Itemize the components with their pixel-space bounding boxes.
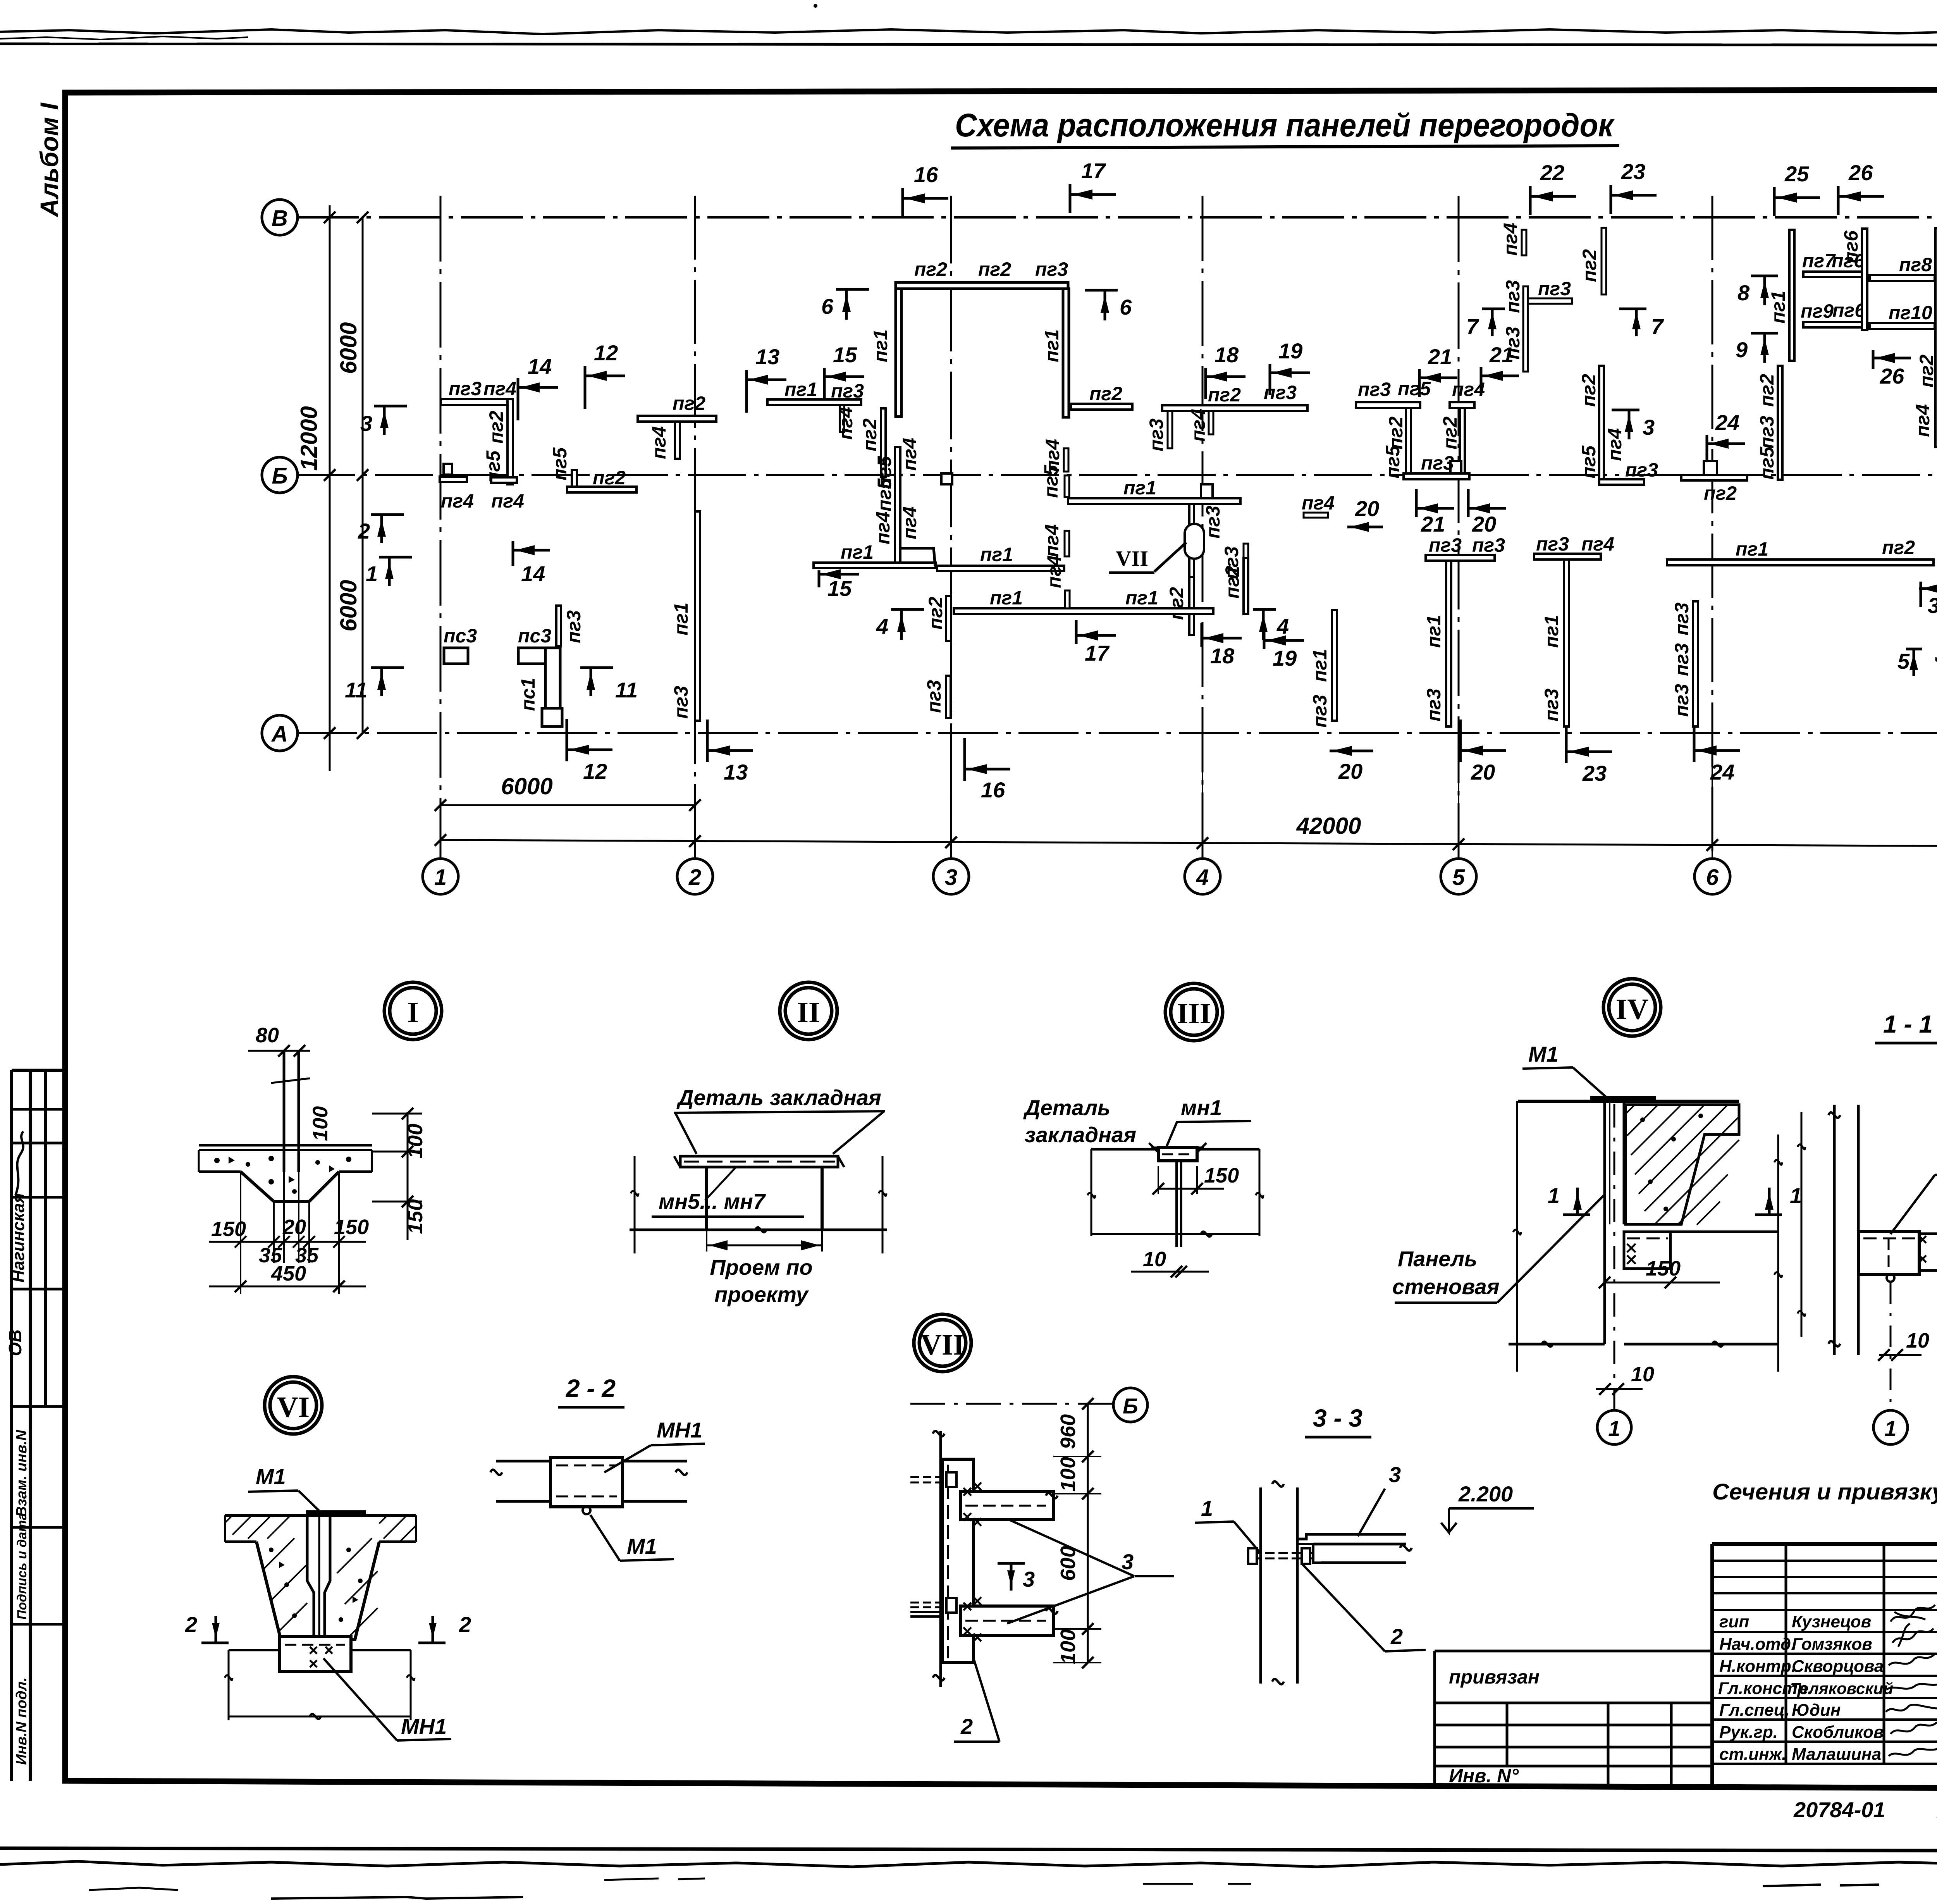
svg-text:Малашина: Малашина (1792, 1745, 1881, 1764)
axis Б line (297, 474, 1937, 476)
svg-text:Б: Б (1123, 1394, 1138, 1418)
long wall пг1 grid7 with пг8/пг10 bars (1935, 228, 1937, 447)
svg-text:18: 18 (1210, 644, 1235, 668)
svg-text:Проем по: Проем по (710, 1255, 812, 1279)
svg-text:пг2: пг2 (1578, 374, 1600, 407)
svg-text:пг9: пг9 (1801, 300, 1834, 322)
svg-text:пг2: пг2 (859, 418, 881, 451)
svg-text:150: 150 (334, 1215, 369, 1239)
detail VI floor lines (229, 1649, 279, 1651)
svg-text:24: 24 (1715, 410, 1739, 435)
small opening square (941, 473, 952, 484)
title block outer (1712, 1542, 1937, 1546)
svg-text:пг3: пг3 (923, 680, 945, 713)
side stamp signature (15, 1131, 23, 1195)
svg-text:23: 23 (1582, 761, 1607, 785)
svg-text:пг4: пг4 (1041, 524, 1063, 557)
panel пг2-пг3 bar with legs (1162, 405, 1307, 411)
svg-text:21: 21 (1489, 343, 1514, 367)
svg-text:Рук.гр.: Рук.гр. (1719, 1723, 1778, 1742)
detail 1-1 centreline to axis (1890, 1283, 1892, 1410)
detail II opening dim (707, 1245, 822, 1246)
svg-text:150: 150 (1204, 1164, 1239, 1187)
svg-text:пг1: пг1 (1541, 615, 1562, 648)
svg-text:Кузнецов: Кузнецов (1792, 1612, 1871, 1631)
detail I haunch trapezoid (241, 1172, 339, 1202)
svg-text:стеновая: стеновая (1392, 1274, 1500, 1299)
svg-text:12000: 12000 (296, 406, 322, 471)
svg-text:пг2: пг2 (1882, 537, 1915, 558)
svg-text:3: 3 (1023, 1567, 1035, 1591)
svg-text:80: 80 (256, 1024, 279, 1047)
panel пг2 vbar + пг1 long bar row2 (946, 596, 951, 641)
svg-text:пг3: пг3 (1202, 506, 1224, 539)
dot top middle (814, 4, 817, 8)
svg-text:1: 1 (434, 865, 447, 890)
svg-text:5: 5 (1897, 649, 1910, 673)
svg-text:пг1: пг1 (1309, 649, 1331, 682)
svg-text:2: 2 (688, 865, 701, 890)
svg-text:М1: М1 (1528, 1042, 1559, 1066)
detail VI circle (270, 1382, 317, 1429)
panel пг3 tee (1523, 286, 1528, 372)
svg-text:21: 21 (1428, 344, 1452, 369)
svg-text:VII: VII (1116, 547, 1148, 571)
detail VII axis Б (910, 1403, 1114, 1405)
axis circle Б (262, 457, 298, 493)
svg-text:10: 10 (1143, 1248, 1166, 1271)
svg-text:пг2: пг2 (1439, 417, 1461, 449)
svg-text:пг2: пг2 (978, 258, 1011, 280)
triple пг3 wall grid6 (1693, 601, 1698, 726)
svg-text:пг4: пг4 (1931, 657, 1937, 690)
torn paper bottom edge (0, 1848, 1937, 1851)
svg-text:пг4: пг4 (1604, 428, 1626, 461)
detail IV ceiling line (1518, 1100, 1739, 1103)
detail IV side edges (1517, 1101, 1778, 1372)
svg-text:пг5: пг5 (1382, 445, 1404, 479)
svg-text:15: 15 (827, 576, 852, 601)
svg-text:пг1: пг1 (870, 329, 891, 362)
node VII callout (1185, 524, 1204, 559)
svg-text:Сечения и привязку панелей пер: Сечения и привязку панелей перегородок с… (1712, 1479, 1937, 1505)
svg-text:пг3: пг3 (1756, 416, 1778, 449)
panel пг2 bar right of room (1071, 404, 1132, 410)
svg-text:2 - 2: 2 - 2 (566, 1374, 616, 1402)
svg-text:пг3: пг3 (1671, 603, 1693, 635)
svg-text:пг4: пг4 (1912, 404, 1934, 437)
axis А line (297, 732, 1937, 734)
detail IV bracket (1624, 1232, 1670, 1269)
svg-text:пг1: пг1 (841, 541, 874, 563)
left sub table привязан (1435, 1651, 1712, 1784)
svg-text:2: 2 (459, 1612, 471, 1637)
grid circle 6 (1694, 859, 1730, 894)
overall dim line 42000 (440, 840, 1937, 847)
panel bar ПГ3-ПГ4 corner col1 (441, 399, 511, 405)
svg-text:VII: VII (920, 1329, 965, 1361)
svg-text:пг3: пг3 (1671, 643, 1693, 676)
svg-text:В: В (272, 206, 288, 231)
svg-text:1: 1 (1201, 1496, 1213, 1520)
svg-text:пг3: пг3 (1538, 278, 1571, 300)
svg-text:8: 8 (1737, 281, 1750, 305)
svg-text:ст.инж.: ст.инж. (1719, 1745, 1786, 1764)
detail 2-2 sleeve MH1 (550, 1458, 623, 1507)
svg-text:24: 24 (1710, 760, 1734, 784)
top band line (0, 44, 1937, 45)
svg-text:3 - 3: 3 - 3 (1313, 1404, 1362, 1432)
svg-text:6000: 6000 (501, 773, 552, 799)
svg-text:1: 1 (1884, 1416, 1896, 1441)
svg-text:пг5: пг5 (874, 478, 895, 511)
svg-text:11: 11 (345, 678, 367, 702)
svg-text:Панель: Панель (1398, 1246, 1477, 1271)
svg-text:пг3: пг3 (831, 380, 864, 402)
svg-text:пг2: пг2 (1579, 249, 1600, 282)
panel пг3 vbar right (1244, 544, 1248, 580)
detail III side dims (1091, 1149, 1259, 1236)
detail VII beams (961, 1491, 1053, 1520)
panel пг4 square at Б axis (444, 464, 452, 475)
svg-text:3: 3 (360, 411, 372, 436)
svg-text:пг10: пг10 (1889, 302, 1932, 324)
svg-text:20: 20 (1338, 759, 1362, 783)
grid line 2 (694, 196, 696, 859)
axis circle А (262, 715, 298, 751)
panel пс3 small (444, 648, 468, 664)
svg-text:20: 20 (1471, 760, 1495, 784)
panel пг4 vbar (1064, 448, 1068, 472)
axis circle В (262, 200, 298, 235)
detail II legs (705, 1167, 708, 1230)
svg-text:450: 450 (271, 1262, 306, 1285)
detail III wall line (1091, 1148, 1259, 1151)
svg-text:пг2: пг2 (1385, 417, 1407, 449)
svg-text:20: 20 (1355, 496, 1379, 521)
svg-text:2: 2 (185, 1612, 197, 1637)
svg-text:III: III (1177, 997, 1211, 1030)
svg-text:пс3: пс3 (518, 625, 551, 647)
svg-text:Нач.отд.: Нач.отд. (1719, 1635, 1796, 1654)
svg-text:М1: М1 (627, 1534, 657, 1558)
svg-text:3: 3 (945, 865, 957, 890)
panel пг2 foot with square (1681, 475, 1747, 480)
svg-text:19: 19 (1278, 339, 1302, 363)
svg-text:пг3: пг3 (1541, 689, 1562, 721)
svg-text:3: 3 (1389, 1462, 1401, 1487)
svg-text:II: II (797, 996, 820, 1029)
panel пг3 vbar below (1189, 504, 1194, 577)
panel пг5 + пг2 at Б (572, 470, 577, 487)
detail VII panel (943, 1459, 974, 1663)
svg-text:пг1: пг1 (990, 587, 1023, 609)
detail IV top plate (1590, 1096, 1656, 1101)
grid circle 3 (933, 859, 969, 894)
svg-text:4: 4 (876, 614, 888, 639)
svg-text:Гомзяков: Гомзяков (1792, 1635, 1872, 1654)
panel пг2 vbar top (1602, 228, 1606, 294)
detail II plate (680, 1156, 838, 1167)
svg-text:15: 15 (833, 343, 857, 367)
svg-text:22: 22 (1540, 160, 1564, 185)
svg-text:23: 23 (1621, 159, 1645, 184)
svg-text:14: 14 (521, 561, 545, 586)
detail IV hatched slab (1626, 1105, 1739, 1224)
svg-text:Нагинская: Нагинская (9, 1193, 28, 1283)
svg-text:пг5: пг5 (1040, 465, 1062, 498)
detail VI hatch (263, 1538, 378, 1635)
detail VI inner column (307, 1515, 330, 1640)
svg-text:16: 16 (914, 162, 938, 187)
svg-text:М1: М1 (256, 1464, 286, 1489)
svg-text:18: 18 (1214, 343, 1239, 367)
svg-text:пг3: пг3 (1423, 689, 1445, 721)
svg-text:Подпись и дата: Подпись и дата (15, 1513, 29, 1620)
svg-text:Деталь закладная: Деталь закладная (676, 1085, 881, 1110)
panel пг6 vbar (1862, 229, 1867, 330)
svg-text:5: 5 (1452, 865, 1465, 890)
svg-text:1: 1 (1790, 1183, 1802, 1208)
svg-text:Взам. инв.N: Взам. инв.N (14, 1429, 30, 1517)
svg-text:13: 13 (724, 760, 748, 784)
svg-text:пг3: пг3 (1035, 258, 1068, 280)
detail II bottom line (630, 1229, 887, 1231)
signatures scrawls (1891, 1605, 1935, 1622)
svg-text:пг2: пг2 (1089, 383, 1122, 405)
detail II side verticals (635, 1156, 882, 1253)
detail 1-1 bracket MH1 (1858, 1232, 1919, 1274)
svg-text:пг3: пг3 (1146, 418, 1167, 451)
svg-text:пг4: пг4 (1500, 223, 1521, 256)
svg-text:пг5: пг5 (1756, 446, 1778, 480)
detail I concrete speckle (214, 1156, 351, 1194)
detail VII circle (919, 1320, 966, 1366)
svg-text:привязан: привязан (1449, 1666, 1540, 1688)
svg-text:150: 150 (404, 1199, 427, 1234)
panel пг5 vbar (1065, 475, 1069, 497)
svg-text:4: 4 (1196, 865, 1209, 890)
svg-text:пг2: пг2 (485, 411, 507, 444)
svg-text:21: 21 (1421, 512, 1445, 536)
svg-text:пг2: пг2 (593, 467, 626, 489)
svg-text:пг1: пг1 (784, 379, 817, 400)
detail VII dims (1087, 1404, 1089, 1663)
svg-text:пг4: пг4 (491, 490, 524, 512)
panel ПГ2 tee col1-2 (638, 416, 716, 422)
svg-text:Альбом I: Альбом I (35, 102, 64, 218)
panel пг1/пг3 tall wall grid4 (1332, 610, 1337, 721)
svg-text:Скворцова: Скворцова (1792, 1657, 1884, 1676)
svg-text:пг4: пг4 (441, 490, 474, 512)
torn paper top edge (0, 29, 1937, 34)
svg-text:42000: 42000 (1296, 813, 1361, 839)
svg-text:2: 2 (960, 1714, 973, 1739)
long bar пг1-пг2 above А (1667, 559, 1934, 565)
svg-text:I: I (407, 996, 419, 1029)
svg-text:13: 13 (755, 344, 779, 369)
grid circle 2 (677, 859, 713, 894)
svg-text:10: 10 (1906, 1329, 1929, 1352)
svg-text:Деталь: Деталь (1023, 1095, 1110, 1120)
svg-text:МН1: МН1 (401, 1714, 447, 1739)
svg-text:Инв. N°: Инв. N° (1449, 1765, 1519, 1787)
svg-text:пг4: пг4 (1043, 555, 1065, 588)
svg-text:16: 16 (981, 778, 1005, 802)
svg-text:пг1: пг1 (1736, 538, 1768, 560)
svg-text:2: 2 (358, 519, 370, 543)
detail VI bottom block MH1 (279, 1636, 351, 1672)
detail 1-1 column (1833, 1105, 1836, 1355)
svg-text:МН1: МН1 (657, 1418, 702, 1442)
svg-text:пг2: пг2 (1208, 384, 1241, 406)
detail I circle (390, 988, 436, 1034)
svg-text:пг4: пг4 (1187, 409, 1209, 442)
svg-text:пг2: пг2 (1756, 374, 1778, 407)
svg-text:3: 3 (1643, 415, 1655, 439)
svg-text:пг3: пг3 (1625, 459, 1658, 481)
svg-text:пг5: пг5 (1398, 378, 1431, 399)
svg-text:11: 11 (615, 678, 638, 702)
svg-text:пг4: пг4 (648, 426, 670, 459)
svg-text:пг3: пг3 (1309, 695, 1331, 728)
svg-text:7: 7 (1651, 314, 1664, 339)
svg-text:12: 12 (583, 759, 607, 783)
panel пг4 vbar small (1065, 531, 1069, 556)
svg-text:пг6: пг6 (1840, 230, 1862, 263)
detail I right dim 100/150 (407, 1112, 409, 1240)
svg-text:пг4: пг4 (899, 506, 920, 539)
svg-text:пг1: пг1 (1125, 587, 1158, 609)
panel пг1 hbar + пг4 leg col2 (767, 399, 861, 405)
svg-text:19: 19 (1273, 646, 1297, 670)
svg-text:пг3: пг3 (1421, 452, 1454, 474)
svg-text:пг1: пг1 (1423, 615, 1445, 648)
panel пг3 vbar lower left (946, 676, 951, 718)
svg-text:пг5: пг5 (1578, 445, 1600, 479)
svg-text:пг2: пг2 (673, 393, 705, 414)
panel пг1 bars bottom row (814, 563, 936, 568)
tall пг1/пг3 wall grid5 (1446, 561, 1451, 726)
svg-text:30: 30 (1928, 593, 1937, 618)
detail I bottom dims (241, 1155, 339, 1294)
svg-text:пг2: пг2 (1221, 566, 1243, 599)
detail IV circle (1609, 984, 1655, 1031)
svg-text:4: 4 (1276, 614, 1289, 639)
svg-text:пг3: пг3 (1536, 533, 1569, 555)
svg-text:17: 17 (1081, 158, 1106, 183)
svg-text:пг1: пг1 (1767, 291, 1789, 324)
svg-text:пг3: пг3 (1358, 379, 1391, 400)
tall пг1/пг3 wall grid5b (1564, 559, 1569, 726)
svg-text:пг4: пг4 (835, 407, 857, 440)
svg-text:2: 2 (1390, 1624, 1403, 1649)
panel пг2/пг5 vbar + foot (1599, 366, 1604, 480)
svg-text:6: 6 (1706, 865, 1719, 890)
svg-text:6000: 6000 (335, 580, 361, 632)
grid circle 5 (1441, 859, 1476, 894)
svg-text:пг3: пг3 (1429, 534, 1462, 556)
grid line 1 (440, 196, 442, 859)
svg-text:пг4: пг4 (483, 378, 516, 399)
panel пг1/пг3 long wall grid2 (695, 511, 700, 721)
svg-text:Б: Б (272, 463, 287, 489)
svg-text:пг8: пг8 (1899, 254, 1932, 275)
svg-text:пг1: пг1 (670, 603, 692, 635)
detail I slab (199, 1144, 372, 1147)
svg-text:25: 25 (1784, 162, 1809, 186)
svg-text:пг1: пг1 (1041, 329, 1063, 362)
svg-text:пг2: пг2 (1704, 482, 1737, 504)
svg-text:100: 100 (1056, 1629, 1080, 1664)
svg-text:пг4: пг4 (899, 438, 920, 471)
svg-text:7: 7 (1466, 314, 1479, 339)
panel пг2 vbar right row2 (1244, 558, 1248, 614)
svg-text:1: 1 (1548, 1183, 1560, 1208)
detail II circle (785, 988, 832, 1034)
svg-text:Юдин: Юдин (1792, 1701, 1841, 1720)
svg-text:Гл.спец.: Гл.спец. (1719, 1701, 1789, 1720)
svg-text:пг1: пг1 (1123, 477, 1156, 499)
grid line 6 (1712, 196, 1713, 859)
svg-text:Схема расположения панелей: Схема расположения панелей перегородок (955, 107, 1615, 143)
svg-text:пг5: пг5 (549, 447, 571, 480)
svg-text:6: 6 (821, 294, 834, 318)
svg-text:пг2: пг2 (925, 597, 946, 630)
svg-text:6: 6 (1120, 295, 1132, 319)
svg-text:1: 1 (1608, 1416, 1620, 1441)
svg-text:10: 10 (1631, 1363, 1654, 1386)
detail VI trapezoid body (256, 1542, 379, 1640)
svg-text:1 - 1: 1 - 1 (1883, 1010, 1933, 1038)
detail VI ceiling (225, 1514, 416, 1517)
grid line 5 (1458, 196, 1460, 859)
svg-text:пг3: пг3 (1502, 280, 1524, 313)
svg-text:IV: IV (1616, 993, 1649, 1026)
svg-text:20: 20 (282, 1215, 306, 1239)
svg-text:12: 12 (594, 341, 618, 365)
detail III stem (1175, 1161, 1178, 1247)
detail 3-3 shelf (1297, 1534, 1406, 1539)
svg-text:ОВ: ОВ (5, 1329, 25, 1356)
svg-text:пг4: пг4 (872, 511, 894, 544)
svg-text:пг2: пг2 (1916, 355, 1937, 387)
svg-text:960: 960 (1056, 1414, 1080, 1449)
detail VI hatched slab band (225, 1515, 416, 1542)
panel пг1 long bar mid (1068, 498, 1240, 504)
svg-text:26: 26 (1880, 364, 1904, 388)
svg-text:2.200: 2.200 (1458, 1482, 1513, 1506)
detail III circle (1171, 989, 1217, 1035)
panel пг3 vbar (556, 606, 561, 646)
svg-text:А: А (271, 721, 288, 747)
svg-text:гип: гип (1719, 1612, 1749, 1631)
svg-text:мн1: мн1 (1181, 1095, 1222, 1120)
svg-text:6000: 6000 (335, 322, 361, 374)
svg-text:17: 17 (1085, 641, 1110, 665)
svg-text:20784-01: 20784-01 (1793, 1797, 1885, 1822)
svg-text:Теляковский: Теляковский (1790, 1679, 1893, 1697)
svg-text:пг7: пг7 (1802, 250, 1836, 272)
grid line 4 (1202, 196, 1204, 859)
detail IV floor lines (1670, 1231, 1778, 1233)
grid circle 4 (1185, 859, 1220, 894)
svg-text:14: 14 (528, 354, 552, 379)
svg-text:100: 100 (404, 1124, 427, 1159)
panel пг2/пг3/пг5 tall vbar (1778, 366, 1782, 480)
svg-text:пг1: пг1 (980, 544, 1013, 565)
left vertical dimension lines (329, 205, 331, 771)
